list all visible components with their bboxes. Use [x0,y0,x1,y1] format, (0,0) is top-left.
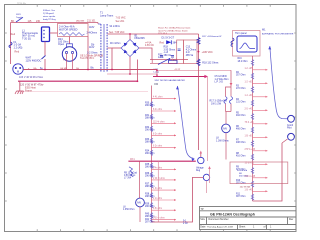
primary bottom lead [98,69,101,71]
ground [15,81,24,94]
arrow on MV feed [230,83,233,86]
zone tick marks right edge [294,33,296,201]
wire: vertical x212.5 [207,77,209,162]
svg-text:230: 230 [36,20,41,23]
ladder left labels [145,103,155,224]
resistor R17 [197,38,200,45]
wire above [138,161,140,198]
primary top lead [97,23,99,25]
svg-text:4 4L ohm: 4 4L ohm [153,97,163,99]
heater squiggles [224,97,227,104]
svg-text:494 Ohm: 494 Ohm [236,115,246,117]
svg-text:1-2 +80: 1-2 +80 [245,81,254,83]
wire: left stub of caps rail [151,60,153,64]
wire: reg2 loop [152,177,204,222]
svg-text:Red: Red [15,51,20,54]
core [102,24,104,72]
label 9-1 2 Ch [183,221,189,226]
svg-text:Voltage: Voltage [196,166,204,169]
svg-text:Toggle: Toggle [16,17,23,19]
svg-text:1 B +45: 1 B +45 [245,189,254,191]
ladder resistors [150,102,152,223]
svg-text:15 di +50: 15 di +50 [245,162,255,164]
regulator circle 2 [203,174,209,180]
svg-text:1751 W-4: 1751 W-4 [158,33,168,35]
wire: rail y70.3 to heater feed [157,69,231,71]
svg-text:18.2 Ohm: 18.2 Ohm [238,61,248,63]
small blue box opt [169,60,178,63]
svg-text:Red: Red [160,42,165,45]
arrow on x198.5 [200,151,203,154]
svg-text:272 Ohm: 272 Ohm [236,88,246,90]
label L8 [216,137,229,143]
svg-text:Sec. 7.65 VAC: Sec. 7.65 VAC [109,31,125,34]
svg-text:Red: Red [11,33,16,36]
wire: bridge right output [139,48,152,60]
bus B main [18,80,137,82]
svg-text:R37: R37 [145,184,150,186]
filter box left [177,40,184,64]
label R24 [58,38,68,46]
fuse F1 [9,41,23,49]
svg-text:115V 460VDC: 115V 460VDC [26,59,42,62]
svg-text:TP10 30r: TP10 30r [17,2,26,5]
label C5 [215,75,230,84]
svg-text:1.2 (A5): 1.2 (A5) [14,46,23,49]
zone tick marks top edge [37,5,270,7]
thermocouple label L1 [22,29,39,40]
wire: box right leg [87,37,89,70]
svg-text:R36: R36 [145,173,150,175]
svg-text:242 4r ohm: 242 4r ohm [153,217,165,220]
svg-text:R30: R30 [145,103,150,105]
wire: bridge bottom drop [129,57,131,75]
svg-text:TP: TP [201,208,204,211]
svg-text:Turn PF 05 C: Turn PF 05 C [80,57,95,60]
wire: connector to rheostat box [50,32,58,34]
wire: top feed line [11,22,99,24]
zone tick marks left edge [5,33,7,201]
label GE motor red [80,55,103,61]
svg-text:Contrl: Contrl [287,124,294,127]
svg-text:R9 13.4 Cad: R9 13.4 Cad [124,172,138,174]
ladder resistors [251,60,253,201]
cap marks inside box [178,49,181,50]
svg-text:2-5 +45: 2-5 +45 [245,108,254,110]
label plug right red [63,56,72,62]
svg-text:Thursday, August 28, 2008: Thursday, August 28, 2008 [207,226,234,229]
wire: ladder bottom to HV line [253,143,283,201]
feed from OM [151,86,153,99]
svg-text:118V: 118V [89,26,95,29]
label L8b [123,207,134,212]
svg-text:SW1: SW1 [16,14,22,16]
svg-text:GE MF: GE MF [60,68,68,70]
switch blade galvo [158,59,169,65]
svg-text:L.P. 3-D: L.P. 3-D [215,81,224,84]
tap red labels [153,97,165,220]
ladder left labels [236,58,248,198]
label R22 [158,53,164,59]
svg-text:1W 1-2W: 1W 1-2W [211,102,222,105]
svg-text:Date:: Date: [200,226,206,229]
blue curve right [270,46,288,119]
svg-text:(84) BIN: (84) BIN [76,21,85,23]
svg-text:FB12345: FB12345 [135,37,146,40]
svg-text:296 Ohm: 296 Ohm [145,153,155,155]
svg-text:Lamp Trans: Lamp Trans [100,15,114,18]
svg-text:MOTOR SPEED: MOTOR SPEED [59,28,78,31]
svg-text:387 Ohm: 387 Ohm [236,196,246,198]
svg-text:OM: OM [154,83,158,86]
svg-text:MV: MV [137,201,141,205]
label SW2 galvanometer [155,79,186,82]
svg-text:2 W 2r ohm: 2 W 2r ohm [153,177,165,180]
ladder taps [253,70,268,192]
svg-text:Sheet: Sheet [239,226,246,229]
svg-text:75.6 +45: 75.6 +45 [245,122,255,124]
svg-text:6 2r ohm: 6 2r ohm [153,145,162,148]
plug P1 [13,64,23,74]
pilot circle 1 [288,115,295,122]
diode D1 [160,40,178,44]
svg-text:288 Ohm: 288 Ohm [145,118,155,120]
svg-text:Sec 201: Sec 201 [116,20,125,23]
wire: bus B riser [136,60,138,82]
svg-text:1 3r ohm: 1 3r ohm [153,187,162,190]
middle blue curve [178,86,194,158]
svg-text:8 5r ohm: 8 5r ohm [153,207,162,210]
svg-text:1-4 +60: 1-4 +60 [245,95,254,97]
svg-text:D1 5Y3-GT: D1 5Y3-GT [162,36,175,39]
svg-text:ASPIRATED PSYCHROMETER: ASPIRATED PSYCHROMETER [262,32,294,35]
svg-text:242 W 8d6: 242 W 8d6 [240,187,251,189]
svg-text:Pilot: Pilot [287,127,292,130]
label column C12 [164,46,176,57]
svg-text:288 Ohm: 288 Ohm [145,142,155,144]
filter box right [184,40,198,64]
svg-text:T-20 (5): T-20 (5) [22,37,31,40]
faint rail [18,90,148,92]
bus A from plug [23,69,157,71]
svg-text:2 Ch: 2 Ch [183,223,189,225]
label above MV [210,100,228,106]
svg-text:MV: MV [223,127,227,131]
bridge rectifier B1 [121,40,139,57]
svg-text:R Elect. Vos: R Elect. Vos [43,9,56,12]
label voltage reg [196,166,204,172]
svg-text:R18 132 Ohms: R18 132 Ohms [202,62,219,65]
svg-text:M1: M1 [262,28,266,31]
label column C13 [186,46,197,57]
svg-text:27P A +45: 27P A +45 [245,148,256,151]
svg-text:Frame: Frame [25,89,33,92]
svg-text:1-2 +95: 1-2 +95 [245,68,254,70]
label ESD [25,87,36,93]
caps row on rail [160,56,174,58]
svg-text:R41: R41 [145,219,150,221]
bus C upper right rail [107,73,158,75]
wire: drop to galvo node [156,70,158,77]
svg-text:MX1: MX1 [130,159,135,161]
meter MV [222,124,231,133]
svg-text:R32: R32 [145,127,150,129]
secondary winding [106,24,108,72]
title block [200,207,297,230]
svg-text:wires upside: wires upside [43,15,56,18]
wire: rail y63.3 [150,62,177,64]
svg-text:8 4r ohm: 8 4r ohm [153,166,162,169]
svg-text:R33: R33 [145,139,150,141]
svg-text:103 V 40 W 08 2.5ow: 103 V 40 W 08 2.5ow [19,76,43,79]
switch blade lower [42,56,46,60]
svg-text:Lamp: Lamp [154,72,160,74]
wire below [139,207,141,222]
arrow above reg2 area [209,168,211,183]
label M1 psychrometer [262,28,294,35]
junction galvo node [156,74,158,76]
svg-text:1-2 Ohms: 1-2 Ohms [87,52,98,55]
svg-text:416 Ohm: 416 Ohm [236,156,246,158]
svg-text:90 mOhm: 90 mOhm [110,42,121,45]
rheostat box MOTOR SPEED [58,24,89,37]
svg-text:1 B +60: 1 B +60 [245,135,254,137]
svg-text:GE PM-12AN Oscillograph: GE PM-12AN Oscillograph [210,213,255,217]
svg-text:of: of [264,226,266,229]
ladder spine [151,98,153,222]
svg-text:480 Va: 480 Va [164,54,172,57]
tap arrows [174,98,176,221]
wire: galvo output line [153,76,206,78]
wire: connector bottom drop [44,42,46,56]
svg-text:R39: R39 [145,204,150,206]
transformer side labels [87,25,121,55]
note lines 115/230 red [158,27,191,35]
switch SW1 [16,14,23,22]
label +4 VA [145,41,154,47]
meter MV2 [136,198,145,207]
title block text [200,208,294,229]
resistor R18b [197,59,200,66]
svg-text:SW2 TESTER GALVANOMETER: SW2 TESTER GALVANOMETER [155,79,186,82]
svg-text:R17 +B Filament W: R17 +B Filament W [202,35,222,38]
bridge B1 label [135,35,146,41]
zone tick marks bottom edge [37,229,270,231]
svg-text:BK: BK [11,20,15,23]
svg-text:296 Ohm: 296 Ohm [145,105,155,107]
svg-text:115: 115 [28,20,32,23]
svg-text:296 Ohm: 296 Ohm [145,130,155,132]
tap arrows [266,69,268,193]
svg-text:R40: R40 [145,214,150,216]
wire: secondary lower to bridge left [108,48,113,70]
wire: vertical x198.5 [198,34,200,150]
wire: stub to circle2r [282,139,288,143]
svg-text:357 Ohm: 357 Ohm [236,75,246,77]
svg-text:R34: R34 [145,151,150,153]
svg-text:R38: R38 [145,194,150,196]
svg-text:R16: R16 [238,58,243,60]
svg-text:41 2P: 41 2P [175,69,181,71]
motor M [62,44,76,61]
svg-text:4.8V DC: 4.8V DC [145,44,154,47]
svg-text:8 4r ohm: 8 4r ohm [153,108,162,111]
junction dots bus A [44,69,46,71]
tap red labels [245,68,256,192]
primary winding [100,24,102,72]
wire: rail y59.5 [150,59,188,61]
svg-text:2-4/Ohms: 2-4/Ohms [87,31,98,34]
svg-text:L7 3V4: L7 3V4 [124,178,132,180]
wire: box to motor [69,37,71,47]
connector J1 thermocouple [42,27,50,42]
svg-text:115 4r ohm: 115 4r ohm [153,120,165,123]
svg-text:408 Ohm: 408 Ohm [236,142,246,144]
wires motor to bus A [66,61,68,70]
node +180 VDC [198,51,200,53]
svg-text:460 Ohm: 460 Ohm [239,176,248,178]
svg-text:0.59 Ohms: 0.59 Ohms [124,175,136,177]
ladder spine [252,56,254,201]
svg-text:Shown For 115VAC/Rheostat Open: Shown For 115VAC/Rheostat Open; [158,27,191,30]
pilot label [287,124,294,130]
node labels 115 / 230 [11,20,41,23]
wire: twin verticals [226,70,232,124]
svg-text:1.3W Ohms: 1.3W Ohms [216,139,229,142]
svg-text:Thrm panel: Thrm panel [235,32,247,35]
svg-text:Open: Open [58,43,65,46]
svg-text:R35: R35 [145,164,150,166]
wire below MV [225,133,227,160]
note block top-left [43,9,56,21]
svg-text:94 mOhm: 94 mOhm [110,25,121,28]
svg-text:R25 A and: R25 A and [237,169,248,172]
svg-text:body TP Reg: body TP Reg [43,19,56,21]
svg-text:Open For 230VAC Rheos Switch: Open For 230VAC Rheos Switch [158,29,188,32]
wire: to bus A [44,59,46,70]
svg-text:2 1r ohm: 2 1r ohm [153,197,162,200]
wire: box left edge below thick tap [157,161,159,222]
svg-text:8 2r ohm: 8 2r ohm [153,132,162,135]
svg-text:+180 VDC: +180 VDC [202,51,213,54]
selector box right ladder [230,162,288,184]
regulator circle 1 [198,157,204,163]
svg-text:131 Ohm: 131 Ohm [236,102,246,104]
svg-text:110V: 110V [89,46,95,49]
label WHT 115V [26,57,42,63]
svg-text:Opt 1: Opt 1 [172,59,179,62]
wire: bridge top to sec line [129,34,131,40]
svg-text:Size: Size [200,218,205,221]
svg-text:Reg: Reg [196,170,201,172]
svg-text:485 Va: 485 Va [186,54,194,57]
svg-text:2) Whywell: 2) Whywell [43,13,54,15]
svg-text:211 101: 211 101 [87,20,96,23]
label R feed [124,172,138,179]
svg-text:R10: R10 [236,180,241,182]
svg-text:R31: R31 [145,115,150,117]
pilot circle 2 [288,133,295,140]
wire: left drop to plug [10,23,12,65]
svg-text:Document Number: Document Number [209,218,229,221]
wire: secondary top line to right [108,33,199,35]
svg-text:466 Ohm: 466 Ohm [236,129,246,131]
ladder taps [152,99,177,220]
svg-text:1.350 Ohm: 1.350 Ohm [123,209,134,211]
thick tap line to regulator [128,160,195,162]
